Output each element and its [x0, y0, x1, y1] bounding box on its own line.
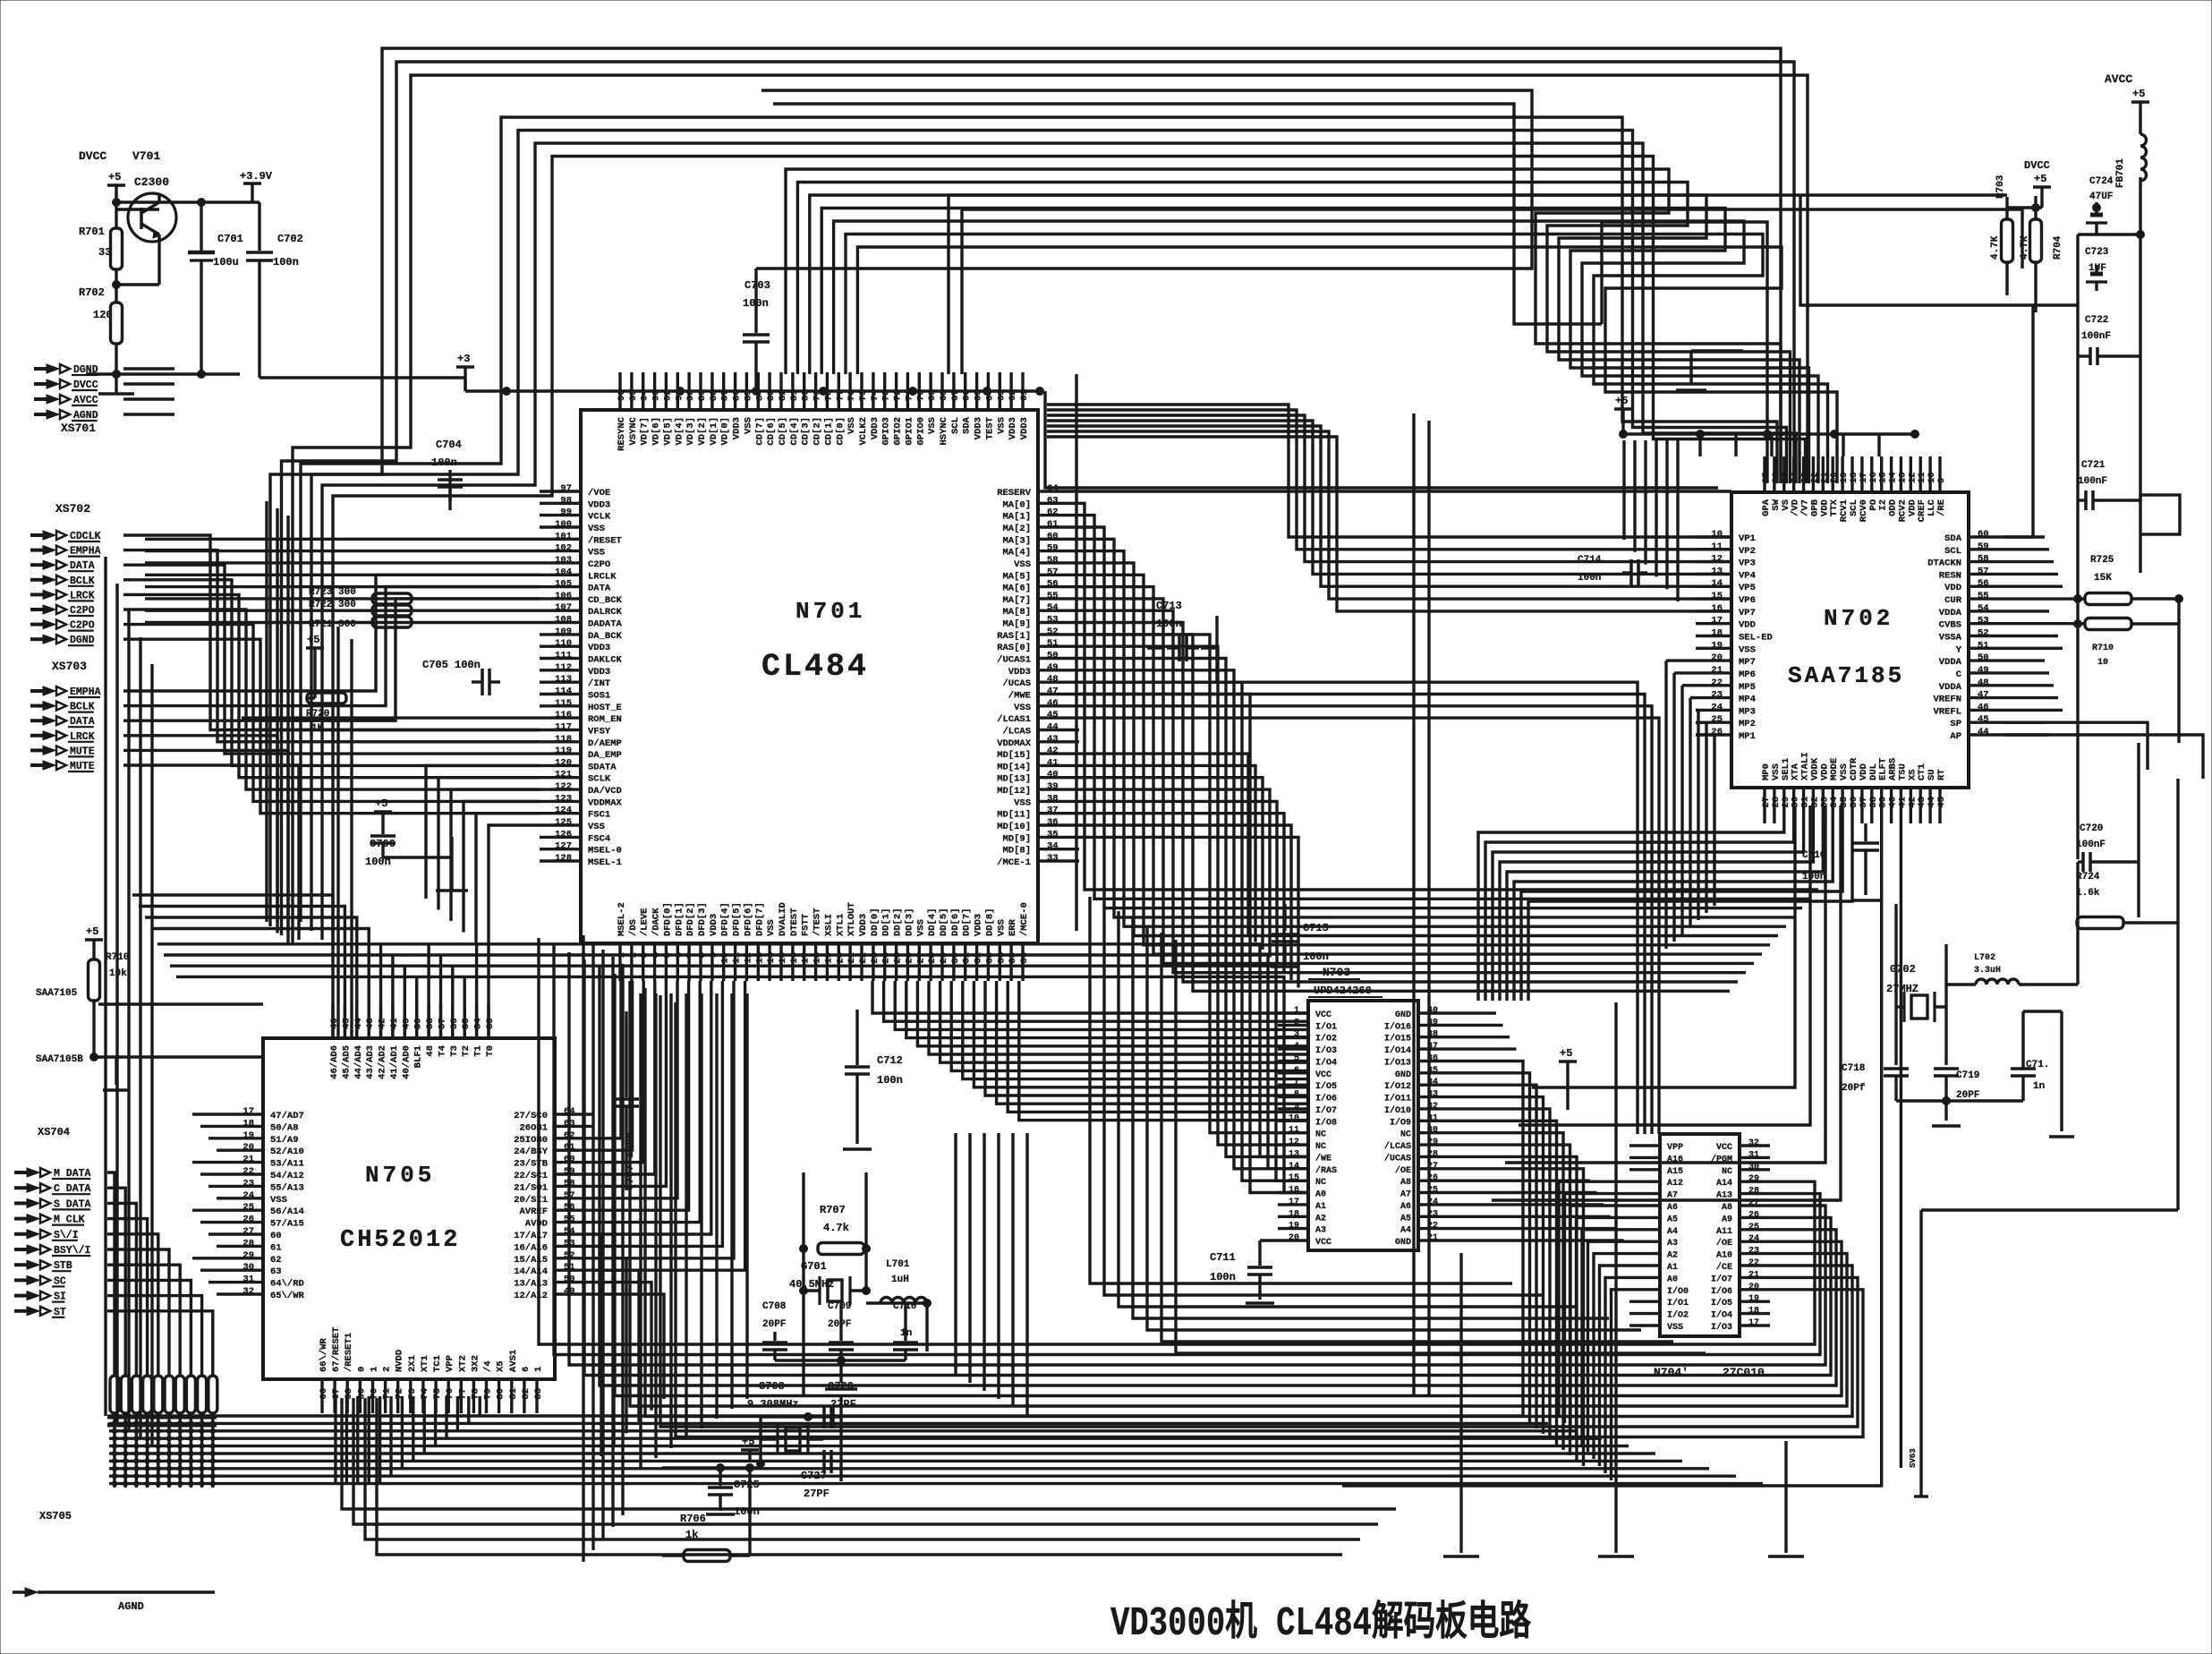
svg-text:45: 45 — [1047, 710, 1059, 720]
svg-text:32: 32 — [1748, 1138, 1759, 1148]
svg-text:SAA7105: SAA7105 — [36, 988, 78, 999]
svg-text:VD[5]: VD[5] — [662, 417, 673, 446]
svg-text:CVBS: CVBS — [1939, 620, 1961, 631]
svg-text:2X1: 2X1 — [407, 1355, 418, 1372]
wire N702 top rail — [1623, 432, 1915, 435]
svg-text:57: 57 — [1978, 566, 1989, 576]
svg-text:23/STB: 23/STB — [514, 1159, 549, 1170]
svg-text:VP2: VP2 — [1739, 546, 1756, 557]
svg-text:VDD3: VDD3 — [709, 914, 719, 936]
svg-text:VPP: VPP — [445, 1355, 455, 1372]
svg-text:C724: C724 — [2089, 176, 2114, 187]
svg-text:DAKLCK: DAKLCK — [588, 655, 623, 666]
svg-text:MD[13]: MD[13] — [997, 774, 1031, 785]
svg-text:/WE: /WE — [1315, 1153, 1331, 1164]
svg-text:FSTT: FSTT — [801, 914, 812, 936]
svg-text:MD[15]: MD[15] — [997, 750, 1031, 761]
svg-text:VDD: VDD — [1944, 583, 1961, 593]
svg-text:/MWE: /MWE — [1008, 691, 1031, 702]
svg-text:28: 28 — [242, 1238, 254, 1249]
svg-text:+5: +5 — [86, 925, 98, 938]
svg-text:DD[8]: DD[8] — [984, 908, 995, 937]
svg-text:56: 56 — [1978, 578, 1989, 589]
svg-text:66: 66 — [319, 1388, 329, 1400]
connector XS703 pins — [43, 686, 55, 695]
svg-text:R724: R724 — [2076, 872, 2100, 882]
svg-text:106: 106 — [555, 591, 572, 601]
svg-text:R702: R702 — [79, 286, 105, 299]
wire bus bottom lower bus — [109, 1414, 1521, 1417]
svg-text:100n: 100n — [273, 256, 299, 269]
svg-text:27C010: 27C010 — [1723, 1366, 1765, 1379]
wire bus MP lines N702 — [1666, 659, 1696, 661]
svg-text:ERR: ERR — [1008, 918, 1018, 936]
svg-text:I/O6: I/O6 — [1315, 1094, 1337, 1104]
svg-text:3X2: 3X2 — [470, 1355, 481, 1372]
svg-text:RAS[1]: RAS[1] — [997, 631, 1031, 642]
svg-text:DD[6]: DD[6] — [950, 908, 961, 936]
svg-text:47/AD7: 47/AD7 — [270, 1111, 304, 1121]
svg-text:MD[12]: MD[12] — [997, 786, 1031, 797]
svg-text:A10: A10 — [1716, 1251, 1732, 1261]
svg-text:50/A8: 50/A8 — [270, 1122, 299, 1133]
svg-text:XS704: XS704 — [38, 1126, 70, 1138]
svg-text:I/O9: I/O9 — [1390, 1117, 1411, 1128]
ground power — [86, 372, 240, 375]
svg-text:VSS: VSS — [1667, 1323, 1683, 1333]
svg-text:55: 55 — [1978, 591, 1989, 601]
svg-text:/RESET1: /RESET1 — [344, 1333, 354, 1372]
svg-text:CD[1]: CD[1] — [823, 417, 834, 446]
wire bus N701 bottom to N705 — [594, 981, 621, 1138]
wire v701 top rail — [116, 200, 159, 203]
svg-text:+5: +5 — [2034, 173, 2046, 185]
wire bus N701 left drops — [426, 765, 540, 899]
svg-text:C721: C721 — [2081, 460, 2106, 471]
svg-text:CD[5]: CD[5] — [778, 417, 788, 446]
svg-text:VDD3: VDD3 — [974, 417, 984, 439]
svg-text:/LCAS: /LCAS — [1002, 727, 1031, 737]
svg-text:I/O1: I/O1 — [1667, 1298, 1689, 1309]
svg-text:VP3: VP3 — [1739, 558, 1756, 569]
svg-text:115: 115 — [555, 698, 572, 709]
svg-text:XS702: XS702 — [55, 502, 90, 516]
svg-text:T1: T1 — [473, 1045, 484, 1057]
svg-text:GND: GND — [1395, 1010, 1411, 1020]
svg-text:VSS: VSS — [996, 919, 1007, 936]
svg-text:63: 63 — [1047, 495, 1059, 506]
svg-text:FSC4: FSC4 — [588, 833, 610, 844]
svg-text:+3.9V: +3.9V — [240, 170, 273, 183]
svg-text:31: 31 — [1748, 1150, 1759, 1160]
svg-text:VFSY: VFSY — [588, 727, 611, 737]
svg-text:57/A15: 57/A15 — [270, 1219, 304, 1230]
svg-text:X5: X5 — [496, 1360, 506, 1372]
connector XS702 pins — [43, 531, 55, 540]
wire bus MA to bottom bus corner — [1090, 897, 1512, 1283]
svg-text:45: 45 — [1936, 797, 1947, 808]
svg-text:18: 18 — [1711, 628, 1723, 639]
svg-text:43: 43 — [365, 1018, 376, 1029]
svg-text:61: 61 — [270, 1242, 282, 1253]
svg-text:21: 21 — [242, 1155, 254, 1165]
svg-text:I/O0: I/O0 — [1667, 1286, 1689, 1297]
svg-text:63: 63 — [270, 1266, 282, 1277]
svg-text:20PF: 20PF — [1956, 1090, 1979, 1101]
resistor array RN bottom — [110, 1376, 119, 1413]
svg-text:41/AD1: 41/AD1 — [389, 1045, 400, 1079]
svg-text:/MCE-1: /MCE-1 — [997, 857, 1031, 868]
svg-text:CD[0]: CD[0] — [835, 417, 846, 446]
svg-text:MA[0]: MA[0] — [1002, 499, 1031, 510]
svg-text:I/O11: I/O11 — [1384, 1094, 1411, 1104]
svg-text:23: 23 — [242, 1178, 254, 1189]
svg-text:109: 109 — [555, 627, 572, 637]
svg-text:45: 45 — [1978, 714, 1989, 725]
svg-text:GND: GND — [1395, 1070, 1411, 1080]
svg-text:A12: A12 — [1667, 1179, 1683, 1189]
svg-text:79: 79 — [483, 1388, 494, 1400]
svg-text:20: 20 — [242, 1142, 254, 1153]
svg-text:24: 24 — [1711, 702, 1723, 712]
svg-text:DTEST: DTEST — [789, 908, 800, 936]
capacitor C704 sym — [438, 478, 463, 482]
svg-text:VSS: VSS — [915, 919, 926, 936]
svg-text:52/A10: 52/A10 — [270, 1147, 304, 1157]
svg-text:A5: A5 — [1667, 1215, 1678, 1224]
svg-text:107: 107 — [555, 602, 572, 613]
svg-text:I/O12: I/O12 — [1384, 1081, 1411, 1092]
svg-text:DADATA: DADATA — [588, 619, 623, 630]
svg-text:MSEL-1: MSEL-1 — [588, 857, 622, 868]
wire pullup rail — [1800, 195, 2078, 305]
svg-text:R704: R704 — [2053, 235, 2063, 260]
svg-text:100nF: 100nF — [2078, 476, 2107, 487]
svg-text:MP4: MP4 — [1739, 695, 1756, 705]
svg-text:17: 17 — [1748, 1318, 1759, 1328]
svg-text:113: 113 — [555, 674, 572, 685]
svg-text:/RE: /RE — [1936, 499, 1947, 516]
svg-text:19: 19 — [1748, 1294, 1759, 1304]
svg-text:+5: +5 — [108, 171, 121, 183]
wire bus to pullups — [949, 195, 2007, 374]
svg-text:23: 23 — [1711, 690, 1723, 701]
svg-text:HSYNC: HSYNC — [939, 416, 949, 445]
svg-text:AVDD: AVDD — [525, 1219, 548, 1230]
svg-text:128: 128 — [555, 853, 572, 864]
svg-text:AGND: AGND — [118, 1600, 144, 1613]
svg-text:SP: SP — [1950, 719, 1961, 729]
svg-text:VP4: VP4 — [1739, 570, 1756, 581]
svg-text:17: 17 — [1289, 1198, 1299, 1207]
svg-text:44: 44 — [1047, 722, 1059, 733]
wire bus MD lines — [1079, 754, 1248, 934]
svg-text:16/A16: 16/A16 — [514, 1242, 548, 1253]
svg-text:48: 48 — [1047, 674, 1059, 685]
svg-text:46/AD6: 46/AD6 — [329, 1045, 340, 1079]
svg-text:VSS: VSS — [588, 822, 605, 832]
resistor R704 — [2030, 219, 2042, 262]
wire bus mid drop verticals 2 — [639, 993, 642, 1468]
svg-text:13/A13: 13/A13 — [514, 1279, 548, 1290]
svg-text:20Pf: 20Pf — [1842, 1083, 1866, 1094]
svg-text:0: 0 — [356, 1367, 367, 1372]
svg-text:N704': N704' — [1654, 1366, 1689, 1379]
svg-text:114: 114 — [555, 686, 572, 697]
svg-text:I/O13: I/O13 — [1384, 1058, 1411, 1069]
svg-text:29: 29 — [1748, 1174, 1759, 1184]
svg-text:54: 54 — [1047, 602, 1059, 613]
svg-text:+5: +5 — [307, 634, 319, 646]
wire right col down — [2076, 573, 2079, 859]
svg-text:55/A13: 55/A13 — [270, 1182, 304, 1193]
svg-text:DFD[7]: DFD[7] — [754, 902, 765, 936]
svg-text:GPIO0: GPIO0 — [915, 417, 926, 446]
wire bus CL484 to N702 video — [756, 90, 1532, 269]
svg-text:21/SO1: 21/SO1 — [514, 1182, 548, 1193]
svg-text:36: 36 — [449, 1018, 460, 1029]
svg-text:T0: T0 — [485, 1045, 496, 1057]
wire bus mid pair to N702 — [1079, 490, 1731, 492]
ground bottom 1 — [1459, 1253, 1462, 1553]
svg-text:SAA7105B: SAA7105B — [36, 1054, 83, 1065]
svg-text:20/SI1: 20/SI1 — [514, 1195, 548, 1206]
svg-text:VDD3: VDD3 — [588, 667, 610, 678]
svg-text:20: 20 — [1748, 1283, 1759, 1292]
svg-text:A6: A6 — [1667, 1203, 1678, 1213]
svg-text:/DS: /DS — [628, 919, 639, 936]
svg-text:C701: C701 — [217, 233, 243, 245]
svg-text:SOS1: SOS1 — [588, 691, 610, 702]
svg-text:125: 125 — [555, 817, 572, 828]
svg-text:I/O2: I/O2 — [1667, 1310, 1689, 1321]
svg-text:MA[1]: MA[1] — [1002, 512, 1031, 523]
svg-text:CD[7]: CD[7] — [754, 417, 765, 446]
svg-text:100n: 100n — [877, 1074, 903, 1087]
wire base junction — [116, 283, 159, 286]
ground bottom 3 — [1784, 1441, 1787, 1553]
svg-text:47: 47 — [1978, 690, 1989, 701]
svg-text:CD[3]: CD[3] — [801, 417, 812, 446]
svg-text:I/O5: I/O5 — [1315, 1081, 1337, 1092]
svg-text:VDD3: VDD3 — [588, 499, 610, 510]
svg-text:XSLI: XSLI — [823, 914, 834, 936]
svg-text:MP1: MP1 — [1739, 731, 1756, 742]
svg-text:1uH: 1uH — [891, 1275, 909, 1285]
svg-text:CH52012: CH52012 — [340, 1227, 460, 1254]
svg-text:I/O5: I/O5 — [1711, 1298, 1732, 1309]
ic N705 CH52012 body — [263, 1038, 555, 1379]
svg-text:15K: 15K — [2094, 573, 2112, 584]
svg-text:VP6: VP6 — [1739, 595, 1756, 606]
svg-text:24/BSY: 24/BSY — [514, 1147, 549, 1157]
svg-text:54: 54 — [1978, 603, 1989, 614]
wire top rail CL484 — [464, 379, 466, 391]
svg-text:VDDA: VDDA — [1939, 657, 1962, 668]
svg-text:MA[9]: MA[9] — [1002, 619, 1031, 630]
wire top rail drop — [506, 391, 507, 410]
svg-text:N705: N705 — [365, 1162, 435, 1189]
svg-text:DD[5]: DD[5] — [939, 908, 949, 936]
svg-text:+5: +5 — [1560, 1047, 1572, 1060]
osc loop box — [802, 1172, 804, 1396]
svg-text:VD[1]: VD[1] — [709, 417, 719, 446]
svg-text:MSEL-2: MSEL-2 — [617, 902, 627, 936]
svg-text:37: 37 — [1047, 806, 1059, 816]
svg-text:VDD: VDD — [1739, 620, 1756, 631]
svg-text:VDDA: VDDA — [1939, 608, 1962, 618]
svg-text:35: 35 — [1047, 829, 1059, 840]
svg-text:82: 82 — [521, 1388, 532, 1400]
svg-text:VP5: VP5 — [1739, 583, 1756, 593]
svg-text:119: 119 — [555, 746, 572, 756]
svg-text:SDATA: SDATA — [588, 762, 617, 772]
svg-text:DVALID: DVALID — [778, 902, 788, 936]
svg-text:+3: +3 — [457, 353, 470, 365]
svg-text:9: 9 — [1936, 478, 1947, 483]
svg-text:42: 42 — [1047, 746, 1059, 756]
svg-text:MSEL-0: MSEL-0 — [588, 846, 622, 857]
svg-text:43/AD3: 43/AD3 — [365, 1045, 376, 1079]
svg-text:25: 25 — [1711, 714, 1723, 725]
wire left pair to N705 — [336, 627, 339, 1038]
svg-text:2: 2 — [1294, 1018, 1299, 1027]
svg-text:53/A11: 53/A11 — [270, 1159, 304, 1170]
svg-text:DFD[3]: DFD[3] — [697, 902, 708, 936]
svg-text:1: 1 — [533, 1367, 544, 1372]
svg-text:DA/VCD: DA/VCD — [588, 786, 622, 797]
svg-text:100nF: 100nF — [2081, 331, 2111, 342]
svg-text:44/AD4: 44/AD4 — [353, 1045, 364, 1079]
osc gnd rail — [775, 1359, 906, 1361]
wire bus N702 right stubs — [2004, 535, 2045, 538]
svg-text:46: 46 — [1047, 698, 1059, 709]
svg-text:A3: A3 — [1315, 1226, 1326, 1236]
svg-text:C708: C708 — [762, 1301, 787, 1312]
svg-text:SEL-ED: SEL-ED — [1739, 633, 1773, 644]
svg-text:C711: C711 — [1210, 1251, 1236, 1264]
svg-text:DD[0]: DD[0] — [870, 908, 881, 936]
svg-text:VPP: VPP — [1667, 1143, 1683, 1153]
svg-text:10: 10 — [2097, 658, 2108, 668]
svg-text:XS703: XS703 — [52, 660, 87, 673]
wire long verticals mid — [1075, 374, 1077, 931]
svg-text:I/O10: I/O10 — [1384, 1105, 1411, 1116]
svg-text:G702: G702 — [1890, 963, 1916, 976]
wire collector to caps — [159, 200, 259, 203]
svg-text:34: 34 — [473, 1018, 484, 1029]
svg-text:62: 62 — [1047, 507, 1059, 518]
svg-text:56/A14: 56/A14 — [270, 1206, 304, 1217]
svg-text:VSS: VSS — [847, 417, 857, 434]
svg-text:DVCC: DVCC — [2024, 159, 2050, 172]
svg-text:I/O3: I/O3 — [1711, 1322, 1732, 1333]
svg-text:BLF1: BLF1 — [413, 1045, 424, 1068]
svg-text:28: 28 — [1748, 1187, 1759, 1197]
svg-text:27: 27 — [242, 1226, 254, 1237]
svg-text:110: 110 — [555, 638, 572, 649]
svg-text:24: 24 — [1748, 1234, 1759, 1244]
svg-text:108: 108 — [555, 615, 572, 626]
wire bus N703 bottom drops — [954, 1133, 957, 1375]
ic N703 UPD424260 body — [1308, 1001, 1418, 1250]
svg-text:MA[6]: MA[6] — [1002, 584, 1031, 594]
svg-text:+5: +5 — [2132, 88, 2145, 100]
svg-text:VP1: VP1 — [1739, 533, 1756, 544]
svg-text:38: 38 — [425, 1018, 436, 1029]
svg-text:GND: GND — [1395, 1238, 1411, 1248]
svg-text:MD[8]: MD[8] — [1002, 846, 1031, 857]
svg-text:4.7K: 4.7K — [1990, 235, 2001, 260]
svg-text:41: 41 — [1047, 757, 1059, 768]
svg-text:60: 60 — [270, 1231, 282, 1241]
svg-text:51: 51 — [1978, 640, 1989, 651]
svg-text:100n: 100n — [734, 1505, 760, 1518]
svg-text:I/O4: I/O4 — [1711, 1310, 1732, 1321]
wire bus XS702 to N701 — [123, 535, 540, 730]
svg-text:38: 38 — [1047, 793, 1059, 804]
svg-text:C723: C723 — [2085, 247, 2109, 258]
svg-text:10: 10 — [1289, 1113, 1299, 1123]
svg-text:VCLK2: VCLK2 — [858, 417, 869, 446]
svg-text:58: 58 — [1047, 555, 1059, 566]
svg-text:127: 127 — [555, 841, 572, 852]
svg-text:53: 53 — [1047, 615, 1059, 626]
svg-text:DD[1]: DD[1] — [881, 908, 892, 936]
svg-text:CL484: CL484 — [761, 649, 869, 685]
svg-text:64\/RD: 64\/RD — [270, 1279, 304, 1290]
svg-text:/LCAS: /LCAS — [1384, 1141, 1411, 1152]
svg-text:C709: C709 — [828, 1301, 851, 1312]
svg-text:46: 46 — [1978, 702, 1989, 712]
svg-text:23: 23 — [1748, 1247, 1759, 1257]
svg-text:C: C — [1956, 669, 1962, 680]
svg-text:V701: V701 — [132, 149, 160, 163]
svg-text:VSS: VSS — [927, 417, 938, 434]
svg-text:C719: C719 — [1956, 1070, 1979, 1081]
svg-text:1: 1 — [369, 1367, 379, 1372]
svg-text:VD[0]: VD[0] — [720, 417, 731, 446]
svg-text:AVREF: AVREF — [519, 1206, 548, 1217]
svg-text:XT2: XT2 — [457, 1355, 468, 1372]
svg-text:27/SC0: 27/SC0 — [514, 1111, 548, 1121]
svg-text:25IOB0: 25IOB0 — [514, 1135, 548, 1146]
wire bus N702 bottom long drops — [1532, 806, 1795, 1087]
svg-text:N701: N701 — [795, 598, 865, 625]
svg-text:12/A12: 12/A12 — [514, 1291, 548, 1301]
svg-text:VDD3: VDD3 — [858, 914, 869, 936]
svg-text:N702: N702 — [1824, 605, 1893, 632]
svg-text:L702: L702 — [1974, 953, 1995, 963]
svg-text:NC: NC — [1400, 1130, 1411, 1140]
svg-text:40/AD0: 40/AD0 — [401, 1045, 412, 1079]
svg-text:A8: A8 — [1722, 1203, 1732, 1213]
svg-text:101: 101 — [555, 531, 572, 541]
svg-text:AVCC: AVCC — [2105, 72, 2132, 86]
osc2 gnd rail — [1896, 1099, 2023, 1102]
svg-text:XS701: XS701 — [61, 422, 96, 435]
wire bus lower crossbus to N703 — [132, 895, 333, 1038]
svg-text:D/AEMP: D/AEMP — [588, 738, 622, 749]
svg-text:C702: C702 — [277, 233, 303, 245]
svg-text:MA[3]: MA[3] — [1002, 535, 1031, 546]
svg-text:80: 80 — [496, 1388, 506, 1400]
svg-text:40: 40 — [401, 1018, 412, 1029]
svg-text:C722: C722 — [2085, 315, 2108, 326]
svg-text:VD3000机 CL484解码板电路: VD3000机 CL484解码板电路 — [1110, 1599, 1532, 1647]
wire avcc col — [2139, 206, 2141, 234]
svg-text:MP3: MP3 — [1739, 706, 1756, 717]
